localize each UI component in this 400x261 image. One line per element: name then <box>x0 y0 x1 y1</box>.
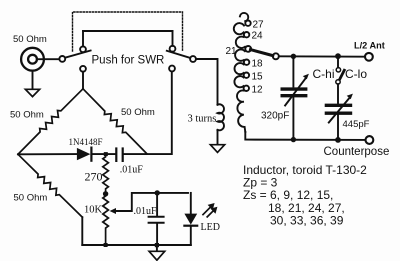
svg-text:3 turns: 3 turns <box>188 114 217 125</box>
svg-text:C-hi: C-hi <box>313 67 335 81</box>
junction (wiper / C2) <box>155 190 160 195</box>
svg-text:1N4148F: 1N4148F <box>69 137 103 147</box>
wire C2 to bottom rail <box>156 224 158 245</box>
switch SW2 blade <box>340 70 345 79</box>
wire SW1a upper throw up <box>82 31 84 46</box>
wire SW1b common to transformer primary <box>196 59 218 105</box>
wire 445pF to bottom rail <box>337 115 339 140</box>
wire to C2 <box>156 193 158 216</box>
tap contact 15 <box>244 73 249 78</box>
wire primary to ground <box>217 130 219 145</box>
tap contact 12 <box>244 86 249 91</box>
svg-text:27: 27 <box>253 19 265 30</box>
switch SW1b lower throw contact <box>169 66 175 72</box>
ground (primary) <box>210 145 224 153</box>
junction (270 / 10K) <box>103 191 108 196</box>
svg-text:24: 24 <box>252 31 264 42</box>
svg-text:50 Ohm: 50 Ohm <box>14 193 48 204</box>
capacitor C3 320pF (variable) <box>282 74 309 106</box>
switch SW1a common contact <box>59 56 65 62</box>
svg-text:270: 270 <box>85 170 103 184</box>
switch SW1a upper throw contact <box>80 46 86 52</box>
switch SW1b upper throw contact <box>170 46 176 52</box>
rotary selector contact <box>273 53 279 59</box>
terminal Counterpose <box>366 136 374 144</box>
svg-text:L/2 Ant: L/2 Ant <box>354 41 385 51</box>
ground (input jack) <box>25 89 39 96</box>
junction (C-hi branch) <box>335 53 341 59</box>
svg-text:12: 12 <box>252 84 264 95</box>
wire top link horizontal <box>83 30 173 32</box>
wire J1 to ground <box>32 71 34 90</box>
wire secondary bottom to counterpoise rail <box>245 132 365 140</box>
resistor R2 50 Ohm (apex to right) <box>83 89 147 154</box>
switch SW2 lower contact <box>336 80 340 84</box>
svg-text:10K: 10K <box>84 205 103 216</box>
transformer primary L1 (3 turns) <box>218 104 224 130</box>
capacitor C4 445pF (variable) <box>326 94 353 123</box>
wire SW1a lower throw to bridge apex <box>82 72 84 89</box>
rotary selector blade (tap 21) <box>251 50 273 56</box>
junction (detector node) <box>104 152 108 156</box>
svg-text:LED: LED <box>201 222 220 233</box>
svg-text:30, 33, 36, 39: 30, 33, 36, 39 <box>270 213 344 227</box>
svg-text:445pF: 445pF <box>343 119 370 130</box>
svg-text:50 Ohm: 50 Ohm <box>121 107 155 118</box>
svg-text:C-lo: C-lo <box>345 67 367 81</box>
switch SW1a lower throw contact <box>80 66 86 72</box>
junction (C2 / rail) <box>155 243 159 247</box>
svg-text:320pF: 320pF <box>261 111 289 122</box>
switch SW2 C-hi/C-lo upper contact <box>336 68 340 72</box>
potentiometer R5 10K <box>103 194 109 245</box>
svg-text:.01uF: .01uF <box>134 206 158 217</box>
wire junction to C-hi switch <box>337 56 339 67</box>
junction (445pF / rail) <box>335 137 341 143</box>
tap contact 24 <box>244 32 249 37</box>
diode D1 1N4148F <box>77 148 92 161</box>
svg-text:18: 18 <box>252 58 264 69</box>
wire left node to diode <box>18 153 77 155</box>
switch SW1b blade <box>167 51 190 58</box>
capacitor C1 .01uF (series) <box>116 149 122 161</box>
tap contact 21 <box>245 46 251 52</box>
switch SW1a blade <box>66 51 91 58</box>
potentiometer wiper arrow <box>110 193 188 214</box>
terminal L/2 Ant <box>365 53 373 61</box>
wire rail to ground <box>156 245 158 251</box>
junction (320pF / rail) <box>291 137 296 142</box>
wire junction to 320pF <box>292 56 294 86</box>
wire diode to junction <box>93 153 116 155</box>
ground (detector) <box>149 251 165 260</box>
wire 320pF to bottom rail <box>292 97 294 139</box>
junction (320pF branch) <box>291 54 296 59</box>
resistor R1 50 Ohm (apex to left node) <box>18 89 83 155</box>
svg-text:Counterpose: Counterpose <box>324 146 390 158</box>
resistor R4 270 <box>103 154 109 194</box>
wire J1 to SW1 common <box>37 58 59 60</box>
svg-text:15: 15 <box>252 71 264 82</box>
bottom rail wire <box>82 244 191 246</box>
svg-text:50 Ohm: 50 Ohm <box>13 34 47 45</box>
LED arrows <box>203 203 217 217</box>
switch SW1b common contact <box>190 56 196 62</box>
tap contact 27 <box>245 21 250 26</box>
LED DS1 <box>184 193 197 245</box>
inductor L2 secondary winding (tapped) <box>234 13 248 132</box>
wire down to SW1b upper throw <box>172 31 174 46</box>
wire R3 down to bottom rail <box>81 217 83 245</box>
resistor R3 50 Ohm (left node to bottom) <box>18 154 82 217</box>
junction (10K / rail) <box>104 243 108 247</box>
dotted mechanical link (push button) <box>73 12 183 51</box>
svg-text:21: 21 <box>226 46 238 57</box>
wire selector to antenna <box>279 55 365 57</box>
wire C1 to SW1b lower throw <box>124 71 172 154</box>
connector J1 (50 Ohm input coax jack) <box>21 48 44 71</box>
svg-text:.01uF: .01uF <box>120 164 144 175</box>
svg-text:50 Ohm: 50 Ohm <box>10 109 44 120</box>
capacitor C2 .01uF <box>149 217 164 223</box>
wire SW2 to 445pF <box>337 84 339 103</box>
svg-text:Push for SWR: Push for SWR <box>92 55 165 67</box>
note text block <box>243 163 367 227</box>
tap contact 18 <box>244 60 249 65</box>
